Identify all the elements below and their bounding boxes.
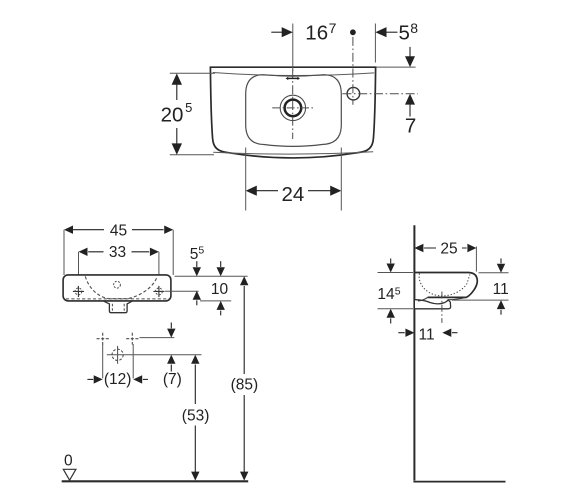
basin top edge extension line (175, 275, 248, 277)
hidden bowl profile (dotted) (419, 274, 470, 296)
dim (12) arrows (87, 378, 93, 380)
drain inner circle (285, 100, 302, 117)
fixing hole reference line to (7) dim (140, 337, 175, 339)
washbasin outline (front) (63, 275, 171, 301)
left fixing hole cross (dashed) (97, 333, 109, 345)
dim end dot (350, 29, 356, 35)
svg-text:14: 14 (377, 286, 395, 303)
dim 33 dimension line with arrows (79, 248, 159, 256)
svg-text:8: 8 (410, 20, 418, 36)
siphon centre (dashed circle with cross) (112, 349, 123, 360)
siphon cover (side) (415, 300, 451, 309)
drain outer circle (280, 95, 305, 120)
dim 20.5 bottom extension line (170, 154, 214, 156)
dim 5.5 down arrow (196, 261, 198, 267)
svg-text:(85): (85) (231, 377, 259, 394)
datum triangle (63, 469, 76, 480)
svg-text:5: 5 (185, 100, 192, 115)
siphon reference line to (53) dim (107, 354, 202, 356)
svg-text:7: 7 (405, 114, 416, 137)
dim 45 dimension line with arrows (64, 226, 173, 234)
tap hole circle (347, 87, 360, 100)
dim 20.5 top extension line (170, 72, 215, 74)
dim 45 extension lines (64, 230, 173, 275)
dim setback down arrow (409, 47, 411, 57)
svg-text:5: 5 (198, 244, 204, 256)
inner bowl outline (plan) (246, 75, 342, 147)
washbasin outer rim (plan) (210, 67, 375, 158)
rim front lip line (213, 152, 373, 154)
top edge extension line (right) (479, 272, 509, 274)
hidden bowl outline (dashed U) (85, 276, 157, 298)
dim 11 (right) up arrow (497, 300, 505, 309)
svg-text:25: 25 (440, 241, 457, 258)
svg-text:0: 0 (64, 453, 73, 470)
svg-text:5: 5 (395, 285, 401, 297)
vertical centreline through rim cross and drain (292, 69, 294, 139)
dim 24 extension lines (246, 148, 342, 211)
hidden drain pipe walls (dashed) (112, 304, 124, 312)
svg-text:5: 5 (190, 246, 199, 263)
rim centre cross mark (288, 77, 298, 79)
dim (7) down arrow (170, 323, 172, 329)
left tap hole cross (73, 286, 84, 297)
dim 20.5 dimension line with arrows (172, 73, 182, 154)
right tap hole cross (153, 286, 164, 297)
dim (12) extension lines (103, 344, 134, 378)
dim 11 (bottom) arrows (398, 332, 404, 334)
tap hole vertical centreline from dot (352, 37, 354, 105)
tap hole reference line to 5.5 dim (165, 290, 199, 292)
svg-text:11: 11 (419, 326, 435, 343)
dim 5.5 up arrow (193, 291, 201, 300)
drain centreline (side, dash-dot) (441, 292, 443, 323)
dim 33 extension lines (79, 252, 159, 297)
hidden shelf line (dashed) (66, 298, 170, 300)
dim 24 dimension line with arrows (246, 186, 342, 196)
dim (7) up arrow (167, 355, 175, 364)
drain horizontal crosshair (272, 107, 313, 109)
svg-text:(12): (12) (104, 371, 132, 388)
dim 10 up arrow (217, 301, 225, 310)
svg-text:7: 7 (329, 20, 337, 36)
shelf under bowl front (448, 297, 466, 299)
dim (53) line with arrows (191, 355, 199, 364)
svg-text:45: 45 (110, 222, 127, 239)
floor line (62, 480, 249, 482)
dim 11 (right) down arrow (500, 258, 502, 263)
dim 25 dimension line with arrows (414, 244, 476, 252)
bowl-to-siphon transition (418, 297, 428, 301)
svg-text:(53): (53) (182, 407, 210, 424)
dim 10 down arrow (220, 261, 222, 267)
rim inner back edge line (213, 73, 374, 76)
tap hole horizontal centreline (7-dim reference) (342, 93, 417, 95)
top edge extension tick (right) (377, 66, 416, 68)
svg-text:16: 16 (305, 22, 328, 45)
svg-text:33: 33 (109, 244, 126, 261)
dim 16.7 extension line (292, 24, 294, 72)
svg-text:5: 5 (399, 22, 410, 45)
dim 5.8 arrow (375, 27, 386, 37)
svg-text:(7): (7) (163, 371, 182, 388)
svg-text:11: 11 (493, 281, 509, 298)
dim 5.8 extension line (374, 24, 376, 63)
dim 14.5 up arrow (387, 309, 395, 318)
washbasin profile (side) (415, 273, 477, 298)
right fixing hole cross (dashed) (126, 333, 138, 345)
dim 16.7 arrow (271, 31, 282, 33)
siphon tailpiece (front) (104, 301, 132, 313)
wall line (413, 225, 415, 480)
dim (85) line with arrows (240, 276, 248, 285)
dim 14.5 down arrow (390, 259, 392, 264)
bottom extension line (right) (452, 299, 509, 301)
dim 7 up arrow (405, 94, 415, 105)
floor line under side view (413, 481, 505, 483)
basin bottom edge extension line (200, 300, 231, 302)
svg-text:20: 20 (161, 104, 184, 127)
overflow hole (dashed circle) (114, 281, 121, 288)
svg-text:24: 24 (282, 183, 305, 206)
svg-text:10: 10 (211, 281, 229, 298)
dim 14.5 extension ticks (378, 273, 414, 309)
dim 25 extension line (475, 247, 477, 272)
